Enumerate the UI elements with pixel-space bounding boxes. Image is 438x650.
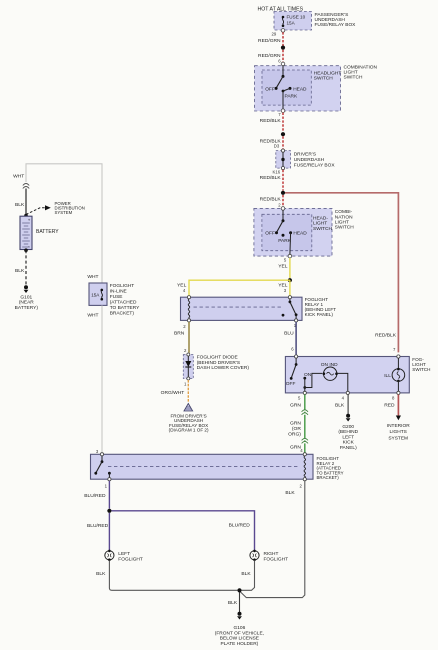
svg-text:BATTERY): BATTERY) xyxy=(15,305,39,311)
svg-text:FOGLIGHT: FOGLIGHT xyxy=(264,556,289,562)
svg-text:SWITCH: SWITCH xyxy=(314,76,333,82)
svg-text:BLK: BLK xyxy=(15,202,25,208)
node BLU/RED junction xyxy=(107,509,111,513)
wire YEL (switch 2 to junction) xyxy=(278,258,290,278)
wire BLK (right foglight to junction) xyxy=(241,561,254,591)
svg-text:RED: RED xyxy=(384,403,395,409)
connector pin 29 xyxy=(272,29,285,37)
svg-text:DRIVER’S: DRIVER’S xyxy=(294,152,316,158)
wire RED/GRN (splice to switch) xyxy=(258,50,283,64)
ground G200 xyxy=(338,414,358,451)
wire BLU/RED (junction to left foglight) xyxy=(87,513,109,551)
svg-text:SYSTEM: SYSTEM xyxy=(388,435,408,441)
svg-text:UNDERDASH: UNDERDASH xyxy=(294,157,325,163)
svg-text:PLATE HOLDER): PLATE HOLDER) xyxy=(221,641,259,647)
headlight switch contacts xyxy=(265,66,307,109)
wire RED/BLK branch to fog light switch pin 7 xyxy=(285,193,398,353)
wire ORG/WHT (diode to triangle) xyxy=(161,380,189,403)
relay 1 pin labels xyxy=(183,323,297,329)
ground G106 xyxy=(215,612,264,647)
svg-text:ILL: ILL xyxy=(384,373,391,379)
SECTION-TOP xyxy=(254,7,399,353)
svg-text:PANEL): PANEL) xyxy=(340,445,357,451)
svg-text:G200: G200 xyxy=(342,424,354,430)
svg-text:FOGLIGHT DIODE: FOGLIGHT DIODE xyxy=(197,355,238,361)
svg-text:RIGHT: RIGHT xyxy=(264,551,279,557)
svg-text:BLK: BLK xyxy=(335,403,345,409)
headlight switch inner box xyxy=(262,70,341,105)
svg-text:BLU/RED: BLU/RED xyxy=(84,493,106,499)
svg-text:LIGHT: LIGHT xyxy=(344,69,358,75)
svg-text:GRN: GRN xyxy=(290,421,301,427)
svg-text:RED/BLK: RED/BLK xyxy=(375,332,397,338)
svg-text:ORG/WHT: ORG/WHT xyxy=(161,390,185,396)
svg-text:BLU/RED: BLU/RED xyxy=(229,522,251,528)
svg-text:29: 29 xyxy=(272,32,277,37)
svg-text:(OR: (OR xyxy=(292,426,301,432)
svg-text:(NEAR: (NEAR xyxy=(19,300,34,306)
diode symbol xyxy=(184,356,191,387)
svg-text:RED/BLK: RED/BLK xyxy=(260,175,282,181)
svg-text:IN-LINE: IN-LINE xyxy=(110,289,127,295)
fog light switch connectors top xyxy=(295,355,401,358)
svg-text:SWITCH: SWITCH xyxy=(313,226,332,232)
svg-text:BELOW LICENSE: BELOW LICENSE xyxy=(220,636,259,642)
foglight relay 2 box xyxy=(91,454,344,480)
svg-text:FUSE 10: FUSE 10 xyxy=(287,15,306,20)
wire RED/GRN (fuse to splice) xyxy=(258,32,283,46)
svg-text:WHT: WHT xyxy=(13,173,24,179)
svg-text:(ATTACHED: (ATTACHED xyxy=(110,300,137,306)
wire GRN (fog light switch to relay 2) xyxy=(288,395,305,453)
svg-text:SYSTEM: SYSTEM xyxy=(55,210,73,215)
relay 1 coil xyxy=(187,296,190,322)
svg-text:ON: ON xyxy=(304,372,312,378)
svg-text:PARK: PARK xyxy=(278,238,292,244)
svg-text:OFF: OFF xyxy=(265,231,275,237)
svg-text:15A: 15A xyxy=(287,20,296,25)
svg-text:INTERIOR: INTERIOR xyxy=(387,423,410,429)
svg-text:YEL: YEL xyxy=(278,264,288,270)
svg-text:LIGHT: LIGHT xyxy=(335,220,349,226)
svg-text:K16: K16 xyxy=(273,170,281,175)
wire lamp to pin 4 xyxy=(337,373,348,391)
svg-text:OFF: OFF xyxy=(265,86,275,92)
fog light switch box xyxy=(285,357,430,393)
battery xyxy=(20,214,59,252)
svg-text:BATTERY: BATTERY xyxy=(36,229,59,235)
wire RED/BLK (splice to D3) xyxy=(260,136,283,148)
svg-text:DASH LOWER COVER): DASH LOWER COVER) xyxy=(197,365,250,371)
off-page connector triangle xyxy=(169,404,209,433)
wire break symbol xyxy=(23,184,29,189)
relay 2 pin 3 xyxy=(96,449,104,456)
svg-text:RED/BLK: RED/BLK xyxy=(260,196,282,202)
relay 2 coil xyxy=(300,453,307,489)
connector at switch pin 6 xyxy=(281,62,285,66)
svg-text:+: + xyxy=(28,218,31,223)
svg-text:HEAD: HEAD xyxy=(293,231,307,237)
svg-text:BLK: BLK xyxy=(241,571,251,577)
svg-text:OFF: OFF xyxy=(286,381,296,387)
node BLK junction xyxy=(237,588,241,592)
wire WHT (in-line fuse to relay 2) xyxy=(87,305,102,452)
svg-text:WHT: WHT xyxy=(87,313,98,319)
svg-text:FOGLIGHT: FOGLIGHT xyxy=(118,556,143,562)
svg-text:G101: G101 xyxy=(20,294,32,300)
wire BRN (relay 1 to diode) xyxy=(174,322,189,353)
svg-text:(DIAGRAM 1 OF 2): (DIAGRAM 1 OF 2) xyxy=(169,428,209,433)
svg-text:SWITCH: SWITCH xyxy=(335,225,354,231)
foglight in-line fuse box xyxy=(87,274,140,316)
svg-text:BLU: BLU xyxy=(284,331,294,337)
splice node xyxy=(281,46,285,50)
arrow to power distribution system xyxy=(26,201,85,215)
connector at switch 2 pin 5 xyxy=(284,254,292,262)
svg-text:PARK: PARK xyxy=(285,93,299,99)
wire RED/BLK (K16 to splice) xyxy=(260,170,283,191)
passenger's underdash fuse/relay box (dashed box) xyxy=(274,12,356,31)
svg-text:FUSE: FUSE xyxy=(110,294,123,300)
svg-text:FUSE/RELAY BOX: FUSE/RELAY BOX xyxy=(315,22,357,28)
svg-text:ORG): ORG) xyxy=(288,431,301,437)
wire WHT (battery to in-line fuse) xyxy=(13,164,102,283)
svg-text:BLK: BLK xyxy=(96,571,106,577)
svg-text:LIGHT: LIGHT xyxy=(313,221,327,227)
svg-text:BLK: BLK xyxy=(15,268,25,274)
svg-text:BRACKET): BRACKET) xyxy=(110,311,135,317)
wire BLU (relay 1 to fog light switch) xyxy=(284,322,296,355)
fuse F10 xyxy=(282,16,285,27)
fog light switch contact xyxy=(286,358,312,391)
SECTION-MID xyxy=(13,164,430,453)
combination light switch box xyxy=(255,64,378,111)
SECTION-BOT xyxy=(84,449,343,647)
svg-text:(FRONT OF VEHICLE,: (FRONT OF VEHICLE, xyxy=(215,630,264,636)
svg-text:FUSE/RELAY BOX: FUSE/RELAY BOX xyxy=(294,162,336,168)
connector at switch 2 pin 2 xyxy=(281,207,285,211)
foglight diode box xyxy=(183,353,249,379)
svg-text:BRN: BRN xyxy=(174,331,185,337)
node yellow junction xyxy=(288,278,292,282)
svg-text:COMBI-: COMBI- xyxy=(335,209,353,215)
wire BLU/RED (relay 2 to junction) xyxy=(84,481,109,509)
svg-text:SWITCH: SWITCH xyxy=(344,75,363,81)
wire RED/BLK (switch to splice) xyxy=(260,113,283,132)
svg-text:LIGHTS: LIGHTS xyxy=(390,429,407,435)
wire YEL (junction to relay 1 pin 4) xyxy=(177,280,290,295)
svg-text:BRACKET): BRACKET) xyxy=(317,475,340,480)
wire BLK (junction to G106) xyxy=(228,593,240,613)
wire BLK (relay 2 to junction) xyxy=(240,481,305,598)
svg-text:RED/GRN: RED/GRN xyxy=(258,38,281,44)
wire YEL (junction to relay 1 pin 3) xyxy=(278,280,290,295)
driver's underdash fuse/relay box xyxy=(273,149,336,175)
svg-text:15A: 15A xyxy=(91,292,100,297)
svg-text:BLK: BLK xyxy=(228,600,238,606)
lamp ILL xyxy=(384,358,405,391)
svg-text:GRN: GRN xyxy=(290,403,301,409)
svg-text:COMBINATION: COMBINATION xyxy=(344,64,378,70)
svg-text:HEAD: HEAD xyxy=(293,86,307,92)
svg-text:HEAD-: HEAD- xyxy=(313,215,328,221)
svg-text:BLK: BLK xyxy=(285,490,295,496)
lamp ON IND xyxy=(321,362,338,381)
wire BLK (fog light switch to G200) xyxy=(335,395,348,415)
wire BLK (battery to G101) xyxy=(15,250,26,285)
wire BLK (break to battery) xyxy=(15,189,26,216)
wire BLK (left foglight to junction) xyxy=(96,561,237,591)
svg-text:BLU/RED: BLU/RED xyxy=(87,523,109,529)
ground G101 xyxy=(15,285,39,311)
connector at switch pin 7 xyxy=(278,109,285,117)
wire to ON indicator lamp xyxy=(305,373,323,387)
fog light switch connectors bottom xyxy=(298,391,400,400)
wire RED/BLK (splice to headlight switch 2) xyxy=(260,195,283,208)
svg-text:LEFT: LEFT xyxy=(342,434,354,440)
wire break symbols on GRN xyxy=(302,410,308,444)
svg-text:G106: G106 xyxy=(234,625,246,631)
label HOT AT ALL TIMES xyxy=(258,7,304,13)
svg-text:TO BATTERY: TO BATTERY xyxy=(110,305,140,311)
svg-text:FOGLIGHT: FOGLIGHT xyxy=(110,283,135,289)
svg-text:KICK: KICK xyxy=(343,440,355,446)
svg-text:LEFT: LEFT xyxy=(118,551,130,557)
right foglight xyxy=(250,550,288,563)
svg-text:HEADLIGHT: HEADLIGHT xyxy=(314,70,342,76)
svg-text:KICK PANEL): KICK PANEL) xyxy=(305,312,334,317)
wire RED to interior lights system xyxy=(384,395,410,442)
svg-text:NATION: NATION xyxy=(335,214,353,220)
left foglight xyxy=(105,550,143,563)
headlight switch 2 inner box xyxy=(262,214,333,250)
combination light switch box 2 xyxy=(254,208,354,256)
headlight switch 2 contacts xyxy=(265,210,307,254)
relay 2 contact xyxy=(94,456,111,488)
svg-text:D3: D3 xyxy=(274,144,280,149)
node (branch to foglight switch ILL) xyxy=(281,191,285,195)
relay 1 contact xyxy=(282,296,298,322)
svg-text:SWITCH: SWITCH xyxy=(412,367,430,372)
svg-text:WHT: WHT xyxy=(87,274,98,280)
svg-text:(BEHIND DRIVER’S: (BEHIND DRIVER’S xyxy=(197,360,240,366)
wire BLU/RED (junction to right foglight) xyxy=(112,511,255,551)
foglight relay 1 box xyxy=(181,297,337,321)
splice node xyxy=(281,132,285,136)
svg-text:(BEHIND: (BEHIND xyxy=(338,429,358,435)
svg-text:RED/BLK: RED/BLK xyxy=(260,118,282,124)
